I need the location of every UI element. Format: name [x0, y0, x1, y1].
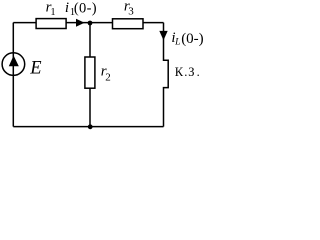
current arrow i1 — [76, 19, 85, 27]
resistor r3 body — [113, 19, 144, 29]
svg-text:З: З — [188, 65, 194, 79]
wire: top horizontal (left corner to right corner) — [13, 22, 163, 24]
svg-text:2: 2 — [105, 72, 111, 84]
wire: right vertical branch with short-circuit jog — [164, 23, 169, 127]
wire: middle vertical branch (node to bottom) — [89, 23, 91, 127]
svg-text:i: i — [65, 0, 69, 16]
svg-text:E: E — [29, 58, 41, 78]
svg-text:L: L — [174, 37, 180, 47]
wire: left vertical branch — [12, 23, 14, 127]
node dot top (junction of r1/r2/r3) — [88, 21, 93, 26]
resistor r2 body — [85, 57, 95, 88]
svg-text:(0-): (0-) — [181, 31, 204, 47]
svg-text:К: К — [175, 65, 184, 79]
wire: bottom horizontal — [13, 126, 163, 128]
source E: wire through circle — [12, 53, 14, 76]
source E: upward current arrow — [9, 56, 19, 67]
svg-text:.: . — [197, 65, 200, 79]
source E: circle — [2, 53, 25, 76]
node dot bottom — [88, 124, 93, 129]
resistor r1 body — [36, 19, 66, 29]
svg-text:3: 3 — [128, 5, 134, 17]
current arrow iL (downward) — [159, 31, 167, 40]
svg-text:(0-): (0-) — [74, 0, 97, 16]
svg-text:1: 1 — [50, 7, 55, 18]
svg-text:.: . — [184, 65, 187, 79]
